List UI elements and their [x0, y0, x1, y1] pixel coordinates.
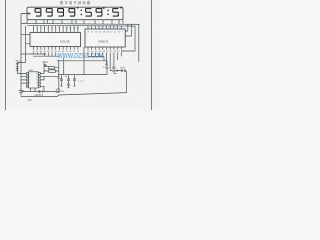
- display box: [27, 7, 123, 20]
- right IC top pin stubs: [88, 27, 121, 29]
- wires from left pins: [17, 74, 26, 84]
- seconds dot: [120, 7, 122, 9]
- cap C2 electrolytic: [67, 75, 70, 88]
- left IC bottom pin numbers: [32, 51, 80, 53]
- small IC U3: [26, 72, 40, 88]
- display drop wires: [36, 20, 119, 24]
- right IC bottom pin numbers: [87, 51, 124, 53]
- wire left long vertical: [20, 14, 22, 92]
- display corner drop left: [27, 20, 123, 24]
- bus under right IC: [88, 55, 104, 57]
- diode D1: [16, 63, 19, 66]
- left IC top pin stubs: [34, 29, 78, 32]
- trimmer cap CT: [112, 70, 117, 73]
- junction dots: [21, 24, 85, 92]
- R1 top wire: [43, 65, 45, 66]
- loop verticals: [64, 58, 107, 75]
- digit 9: [58, 9, 64, 17]
- transformer circle: [56, 89, 60, 93]
- left IC top pin numbers: [33, 28, 80, 30]
- U3 bottom stubs: [31, 88, 36, 92]
- resistor R3: [49, 70, 56, 73]
- display input wire: [21, 13, 29, 15]
- digit 5: [113, 9, 119, 17]
- R1 dark blob link: [43, 63, 45, 65]
- R wires: [44, 60, 59, 91]
- right pin boxes: [38, 73, 40, 75]
- left IC bottom pin stubs: [34, 47, 78, 50]
- scan noise: [0, 0, 1, 1]
- cap2 plus: [65, 76, 67, 78]
- loop top stub: [103, 56, 105, 60]
- wires from right pins: [40, 71, 58, 92]
- diode D3: [39, 90, 43, 93]
- wire x25.5 down: [17, 44, 25, 63]
- display arrowhead: [28, 12, 31, 15]
- digit 9: [35, 9, 41, 17]
- digit 5: [86, 9, 92, 17]
- right IC body: [85, 29, 125, 47]
- lower wire: [21, 91, 59, 93]
- bus line 2: [27, 24, 135, 27]
- cap C1: [60, 75, 63, 86]
- right IC top outer numbers: [87, 25, 119, 27]
- trim cap mark: [106, 67, 109, 69]
- right side riser C: [121, 26, 135, 51]
- digit 9: [46, 9, 52, 17]
- bottom rail: [21, 71, 127, 97]
- mid vertical between ICs: [83, 47, 85, 75]
- left IC left link 2: [26, 26, 31, 44]
- right side riser A: [125, 24, 128, 31]
- component blob: [44, 64, 46, 66]
- colon 1: [77, 7, 82, 15]
- diode D2: [16, 68, 19, 71]
- bus line 1: [21, 23, 140, 24]
- plug terminal: [18, 88, 24, 97]
- right IC bottom drops: [88, 52, 121, 70]
- switch S2: [121, 70, 123, 72]
- apostrophe dot: [103, 7, 105, 9]
- left IC left link 1: [21, 34, 30, 36]
- resistor R2: [49, 67, 55, 69]
- right side riser B: [125, 24, 131, 36]
- cap C3: [73, 75, 76, 86]
- left pin boxes: [26, 73, 28, 75]
- left IC bottom drops: [34, 52, 56, 56]
- right IC feed wires from bus: [88, 25, 121, 28]
- right side riser D: [138, 24, 140, 62]
- left IC body: [30, 33, 81, 47]
- diode chain wire: [16, 63, 18, 74]
- left IC feed wires from bus: [34, 26, 78, 29]
- bus under left IC a: [21, 53, 46, 55]
- link bus to mid vertical: [57, 60, 107, 62]
- U3 pin number marks: [29, 73, 37, 85]
- left page border: [5, 0, 7, 110]
- digit 9: [96, 9, 102, 17]
- right page border: [151, 0, 153, 110]
- colon 2: [107, 10, 108, 15]
- right IC bottom pin stubs: [88, 47, 121, 50]
- bus under left IC b: [33, 55, 59, 57]
- right IC inner pin numbers: [87, 31, 124, 33]
- mid rail: [58, 74, 107, 76]
- digit 9: [69, 9, 75, 17]
- switch wires: [105, 65, 120, 71]
